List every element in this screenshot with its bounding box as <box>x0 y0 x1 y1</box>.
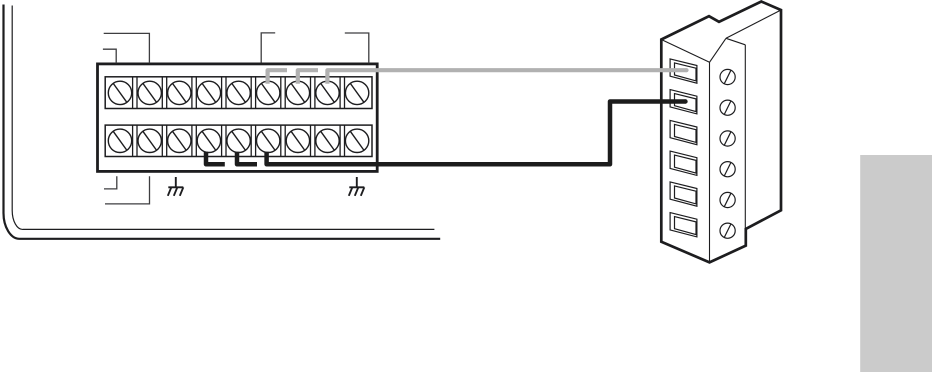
terminal row strip lower <box>105 125 372 156</box>
chassis ground symbol G2 <box>349 177 365 196</box>
gray wire end tip <box>684 68 688 72</box>
screws lower row <box>108 129 369 152</box>
connector inner edge: Q-R <box>726 38 745 45</box>
black wire jumper 1 <box>206 152 225 165</box>
screws upper row <box>108 81 369 104</box>
gray wire jumper 1 <box>268 70 287 84</box>
black wire main run <box>267 102 686 165</box>
bracket lead B6 (bottom left large) <box>105 176 150 204</box>
gray wire jumper 2 <box>298 70 318 84</box>
cell separators upper row <box>133 77 345 109</box>
terminal block TB1 outline <box>98 64 378 171</box>
enclosure outline inner <box>12 6 434 230</box>
black wire jumper 2 <box>237 152 257 165</box>
connector wire slots <box>670 59 697 237</box>
bracket lead B2 (top left inner) <box>103 49 116 63</box>
chassis ground symbol G1 <box>168 177 184 196</box>
connector screws <box>720 69 735 238</box>
bracket lead B4 (top right) <box>345 33 369 63</box>
gray sidebar panel <box>860 155 932 372</box>
gray wire main run <box>327 70 686 84</box>
bracket lead B1 (top left outer) <box>104 33 150 63</box>
connector J1 body outline <box>661 2 781 263</box>
bracket lead B3 (top middle) <box>261 33 275 63</box>
terminal row strip upper <box>105 77 372 109</box>
connector inner edge: column right vertical <box>709 62 711 262</box>
enclosure outline outer <box>3 5 440 239</box>
connector inner edge: column front-top <box>661 40 709 63</box>
bracket lead B5 (bottom left small) <box>104 176 117 189</box>
connector inner edge: bevel F-Q <box>710 38 727 62</box>
connector inner edge: screw face right vertical <box>744 45 746 229</box>
black wire end tip <box>683 99 687 103</box>
connector inner edge: plate top front Q-P3 <box>726 10 781 38</box>
cell separators lower row <box>133 125 345 156</box>
